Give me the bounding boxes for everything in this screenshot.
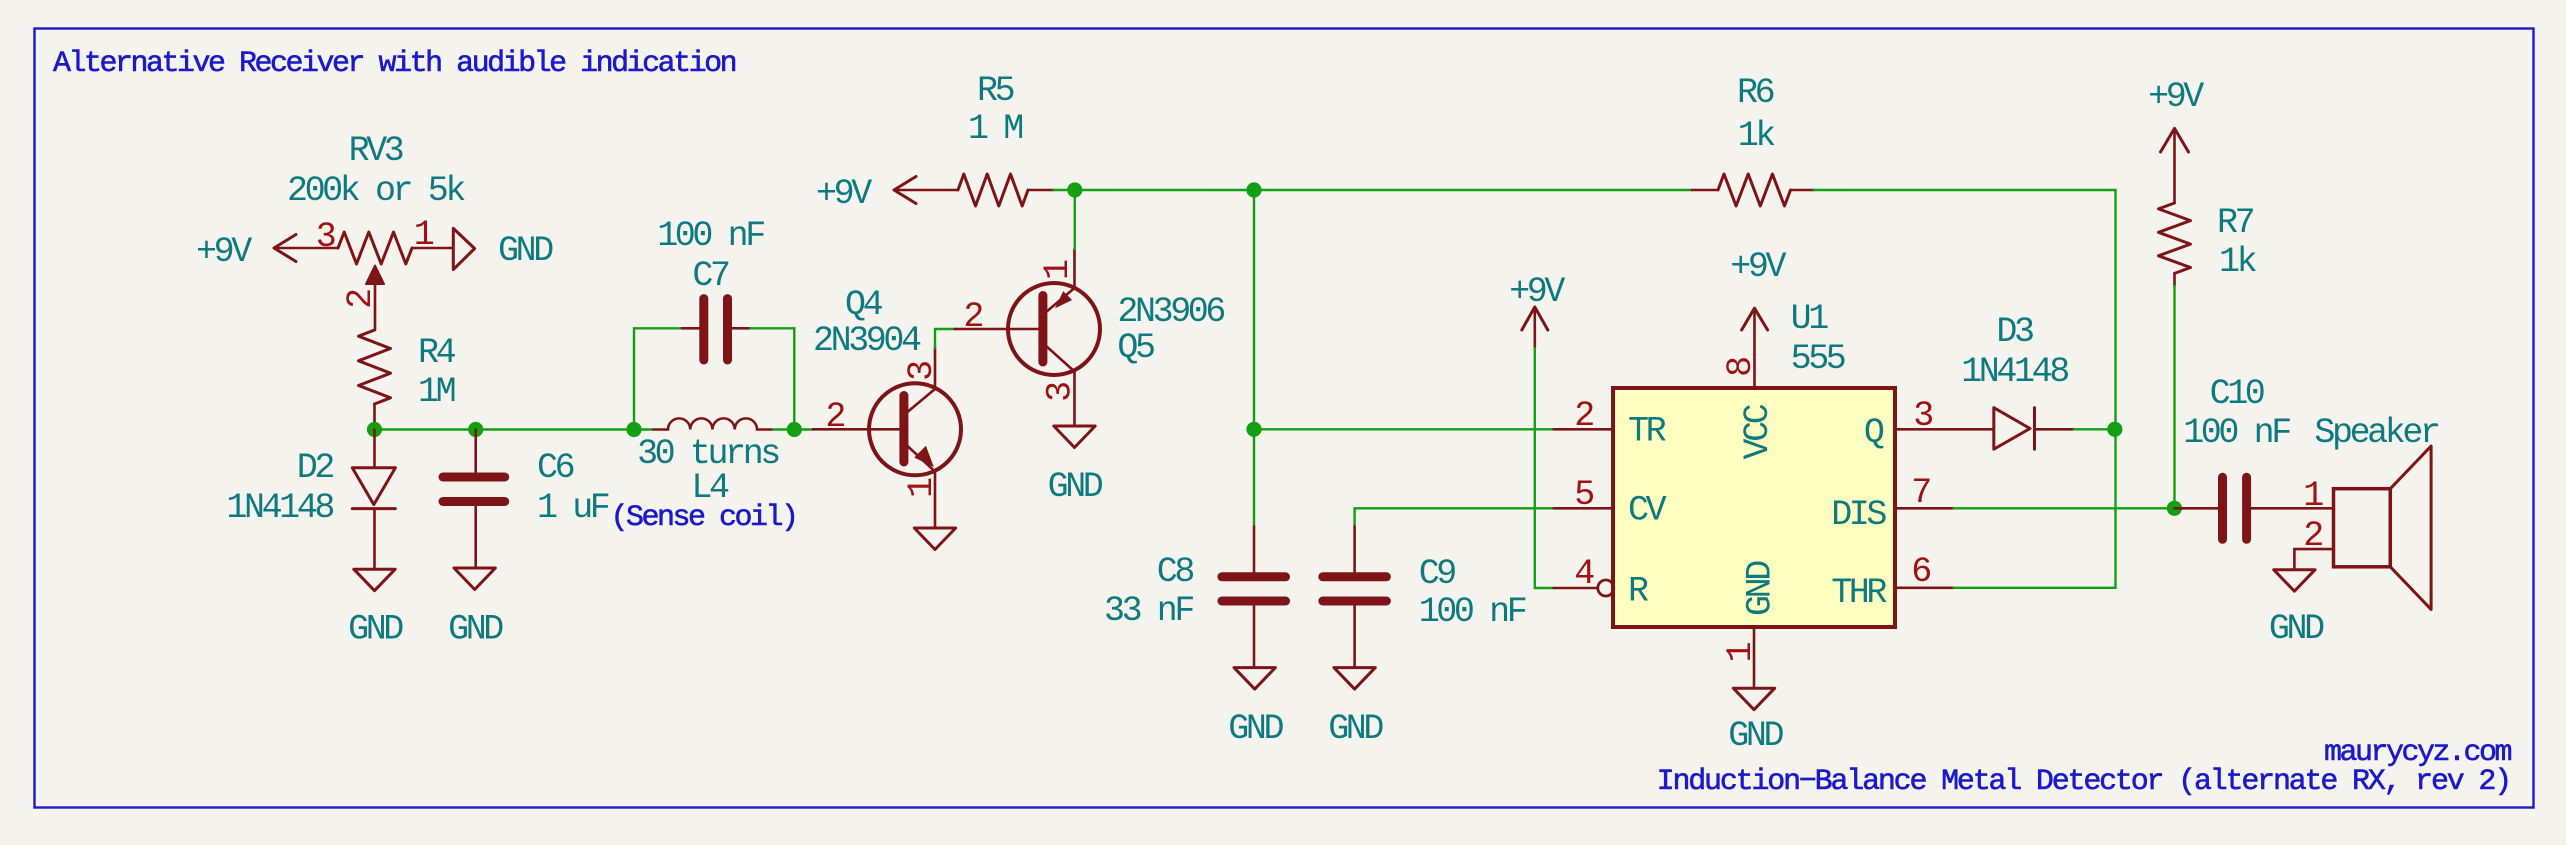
svg-text:R6: R6 [1737, 73, 1774, 113]
svg-text:1: 1 [1038, 260, 1078, 280]
capacitor C7 [634, 216, 794, 430]
svg-text:33 nF: 33 nF [1104, 591, 1193, 631]
ground (C9) [1328, 668, 1383, 749]
svg-text:DIS: DIS [1831, 495, 1886, 535]
svg-text:GND: GND [1228, 709, 1283, 749]
svg-text:5: 5 [1574, 475, 1593, 515]
pin 2 TR [1554, 396, 1667, 452]
junction (D3 cathode) [2107, 422, 2122, 437]
svg-text:GND: GND [348, 610, 403, 650]
pin 5 CV [1554, 475, 1667, 530]
svg-text:C6: C6 [537, 448, 574, 488]
svg-text:+9V: +9V [816, 174, 872, 214]
svg-text:2N3904: 2N3904 [813, 321, 921, 361]
junction (R4 / D2) [367, 422, 382, 437]
svg-text:RV3: RV3 [349, 131, 403, 171]
svg-text:1k: 1k [1738, 116, 1776, 156]
svg-text:1N4148: 1N4148 [226, 488, 333, 528]
ground (U1) [1728, 688, 1783, 756]
svg-text:1M: 1M [418, 372, 455, 412]
resistor R7 [2159, 203, 2257, 286]
svg-text:C10: C10 [2210, 374, 2264, 414]
capacitor C10 [2174, 374, 2333, 539]
diode D2 [226, 430, 395, 570]
svg-text:D2: D2 [297, 448, 334, 488]
svg-text:U1: U1 [1791, 299, 1829, 339]
svg-text:1: 1 [902, 478, 942, 498]
wire (top rail to Q5 emitter) [1074, 190, 1076, 249]
svg-text:6: 6 [1911, 552, 1930, 592]
capacitor C8 [1104, 527, 1286, 668]
svg-text:1N4148: 1N4148 [1961, 352, 2068, 392]
svg-text:3: 3 [316, 217, 335, 257]
svg-text:Q: Q [1864, 413, 1884, 453]
svg-text:2: 2 [1574, 396, 1593, 436]
svg-text:1: 1 [2303, 476, 2323, 516]
wire top rail [1054, 189, 1693, 191]
svg-text:2: 2 [825, 397, 844, 437]
pin 6 THR [1831, 552, 1953, 613]
svg-text:100 nF: 100 nF [2183, 413, 2290, 453]
wire (TR net horizontal) [1254, 428, 1554, 430]
svg-text:GND: GND [1328, 709, 1383, 749]
svg-text:1 uF: 1 uF [537, 488, 609, 528]
svg-text:Q5: Q5 [1117, 328, 1154, 368]
svg-text:+9V: +9V [1730, 247, 1786, 287]
svg-text:Q4: Q4 [845, 285, 883, 325]
junction (DIS / R7 / C10) [2167, 501, 2182, 516]
speaker LS1 [2294, 413, 2438, 609]
svg-text:C7: C7 [692, 256, 729, 296]
svg-text:2: 2 [963, 297, 982, 337]
transistor Q5 2N3906 [955, 249, 1224, 426]
svg-text:1k: 1k [2219, 242, 2257, 282]
svg-text:3: 3 [902, 362, 942, 381]
pin 7 DIS [1831, 473, 1953, 535]
power +9V (R7) [2148, 77, 2204, 203]
svg-text:+9V: +9V [196, 232, 252, 272]
svg-text:GND: GND [498, 231, 553, 271]
junction (TR row) [1246, 422, 1261, 437]
inductor L4 [637, 418, 779, 508]
junction (TR vertical) [1246, 182, 1261, 197]
svg-text:C8: C8 [1157, 552, 1194, 592]
transistor Q4 2N3904 [813, 285, 961, 528]
svg-text:100 nF: 100 nF [657, 216, 764, 256]
svg-text:THR: THR [1831, 573, 1887, 613]
svg-text:GND: GND [1741, 561, 1781, 616]
svg-text:100 nF: 100 nF [1419, 592, 1526, 632]
svg-text:R7: R7 [2217, 203, 2254, 243]
svg-text:Induction−Balance Metal Detect: Induction−Balance Metal Detector (altern… [1657, 765, 2510, 799]
ground (C8) [1228, 668, 1283, 749]
power GND (right of RV3) [453, 228, 553, 271]
svg-text:1: 1 [1721, 642, 1761, 662]
svg-text:R4: R4 [418, 333, 456, 373]
wire (+9V to R pin) [1535, 348, 1554, 588]
capacitor C9 [1323, 508, 1526, 667]
capacitor C6 [443, 430, 609, 569]
wire (R6 to right corner and down to THR) [1814, 190, 2116, 588]
svg-text:TR: TR [1628, 412, 1667, 452]
svg-text:2N3906: 2N3906 [1117, 292, 1224, 332]
ground (Q5) [1048, 426, 1103, 507]
junction (C7 right / L4) [787, 422, 802, 437]
pin 8 VCC [1721, 308, 1778, 459]
svg-text:1 M: 1 M [968, 109, 1022, 149]
resistor R5 [958, 71, 1054, 206]
power +9V (VCC) [1730, 247, 1786, 330]
wire (L4 to Q4 base) [773, 428, 813, 430]
resistor R6 [1692, 73, 1814, 206]
svg-text:3: 3 [1913, 396, 1932, 436]
svg-text:C9: C9 [1419, 554, 1456, 594]
junction (R5 / Q5) [1067, 182, 1082, 197]
wire (TR net vertical) [1253, 190, 1255, 527]
wire main row [375, 428, 654, 430]
svg-text:2: 2 [341, 290, 381, 309]
svg-text:555: 555 [1791, 339, 1845, 379]
svg-text:D3: D3 [1996, 312, 2033, 352]
svg-text:R5: R5 [977, 71, 1014, 111]
wire (CV row) [1355, 507, 1554, 509]
svg-text:3: 3 [1041, 383, 1081, 402]
ground (D2) [348, 569, 403, 649]
svg-text:GND: GND [1728, 716, 1783, 756]
svg-text:VCC: VCC [1738, 404, 1778, 459]
junction (C7 left) [626, 422, 641, 437]
pin 1 GND [1721, 561, 1781, 688]
svg-text:GND: GND [448, 610, 503, 650]
svg-text:GND: GND [2269, 609, 2324, 649]
IC U1 555 [1613, 299, 1895, 627]
svg-text:8: 8 [1721, 358, 1761, 377]
wire (Q4 collector to Q5 base) [935, 329, 956, 348]
wire (DIS row) [1954, 507, 2175, 509]
junction (C6) [468, 422, 483, 437]
pin 4 R [1554, 554, 1649, 611]
resistor R4 [359, 330, 456, 430]
svg-text:L4: L4 [691, 468, 729, 508]
pin 3 Q [1864, 396, 1994, 453]
svg-text:Alternative Receiver with audi: Alternative Receiver with audible indica… [53, 47, 736, 81]
power +9V (left of RV3) [196, 232, 338, 272]
svg-text:GND: GND [1048, 467, 1103, 507]
svg-text:+9V: +9V [1509, 272, 1565, 312]
power +9V (reset pin) [1509, 272, 1565, 348]
ground (speaker) [2269, 570, 2324, 649]
svg-text:1: 1 [414, 215, 434, 255]
svg-text:CV: CV [1628, 490, 1667, 530]
ground (Q4) [914, 528, 955, 550]
svg-text:7: 7 [1911, 473, 1930, 513]
svg-text:200k or 5k: 200k or 5k [287, 171, 465, 211]
potentiometer RV3 [287, 131, 465, 330]
svg-text:4: 4 [1574, 554, 1594, 594]
ground (C6) [448, 568, 503, 650]
diode D3 [1961, 312, 2115, 449]
power +9V (R5) [816, 174, 958, 214]
wire (R7 down to DIS row) [2173, 286, 2175, 509]
svg-text:+9V: +9V [2148, 77, 2204, 117]
svg-text:Speaker: Speaker [2314, 413, 2438, 453]
